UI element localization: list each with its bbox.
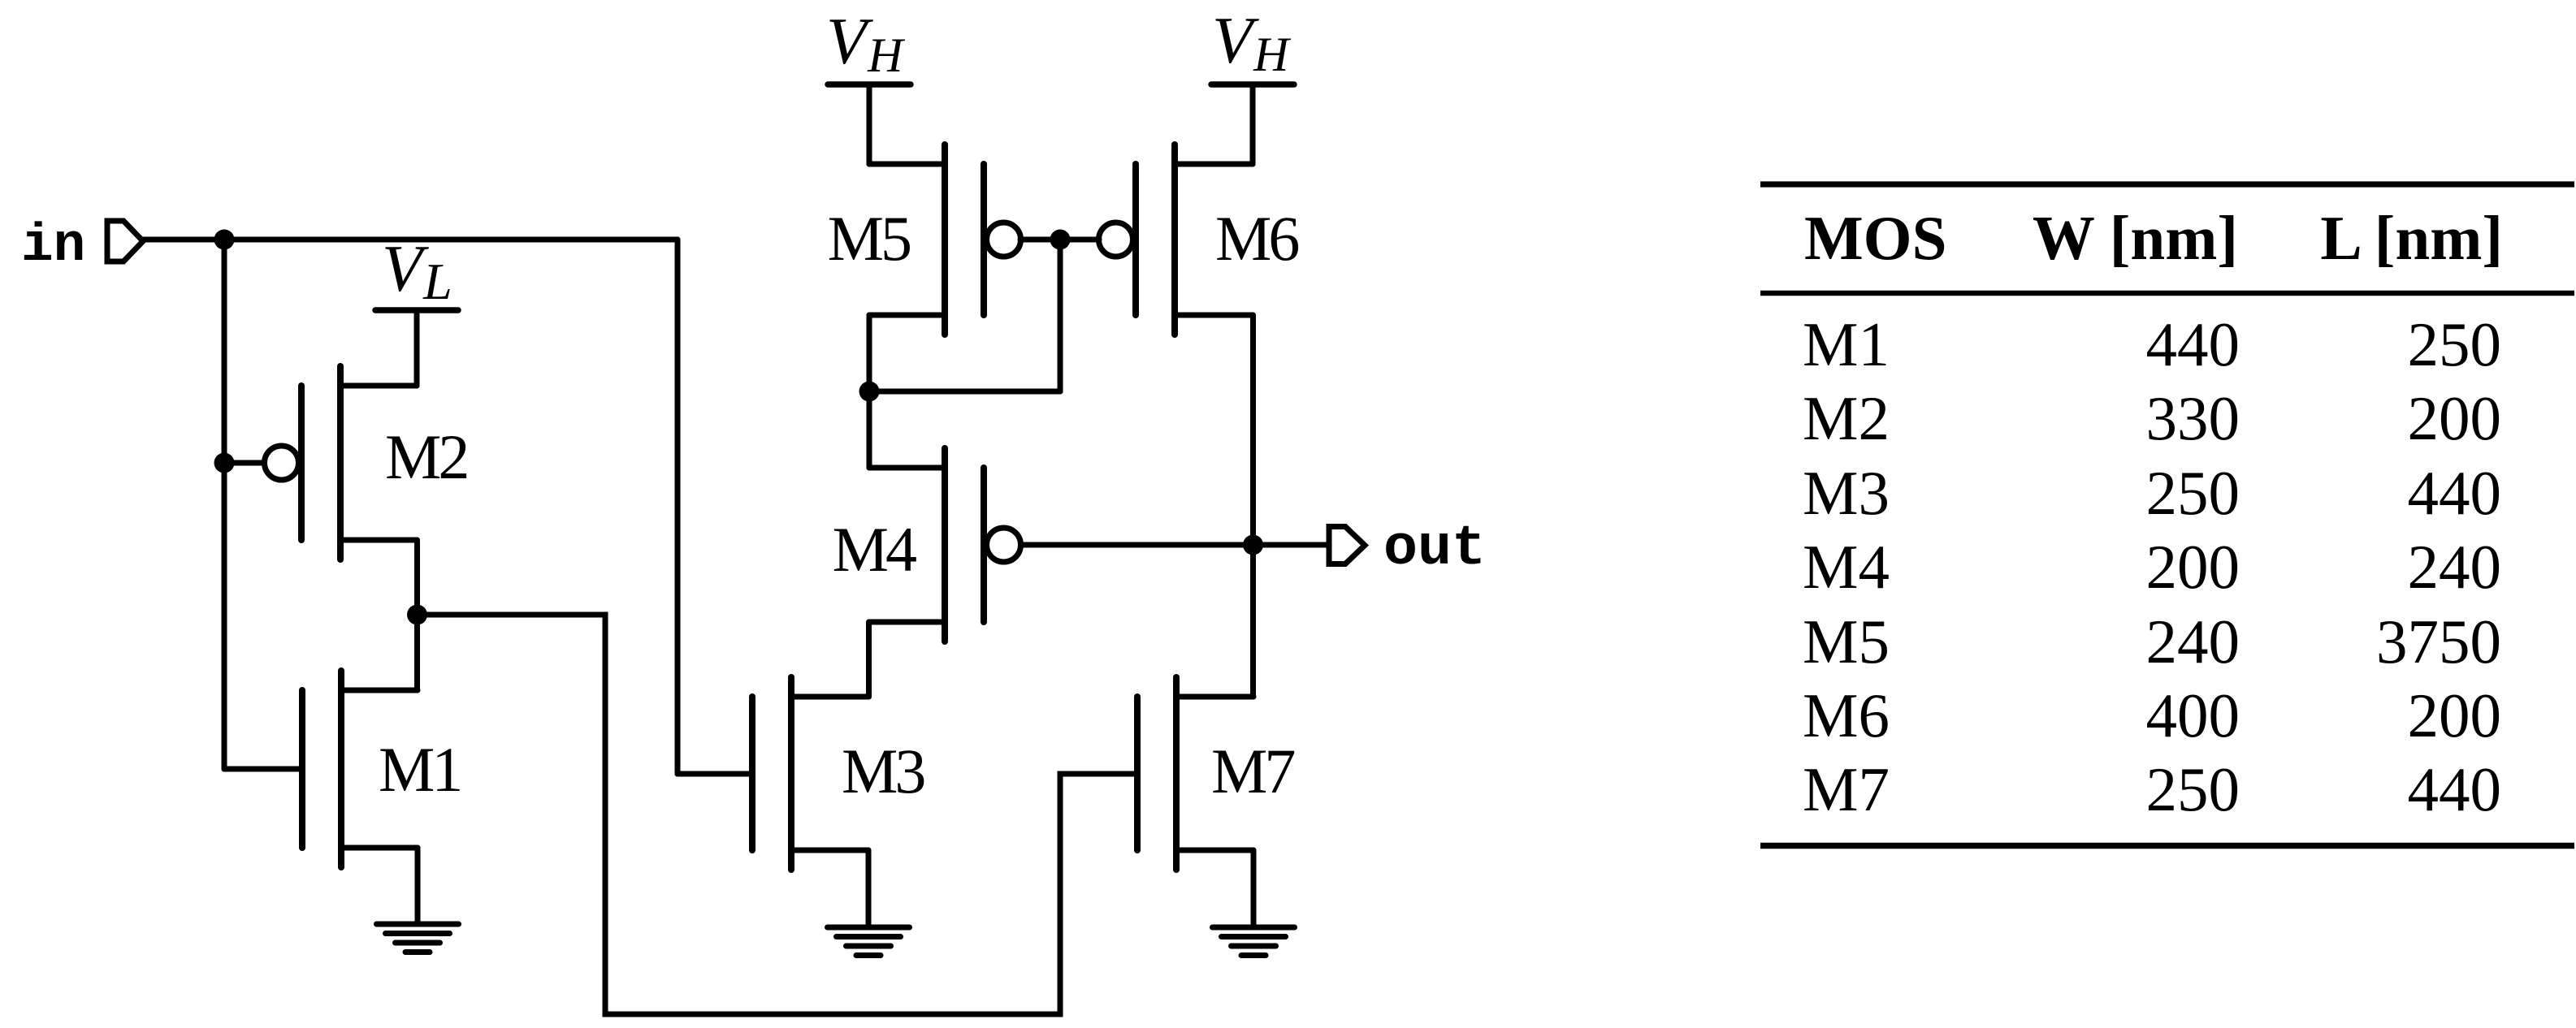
wire M5 drain to M4 source: [867, 315, 872, 468]
wire VH lead (M6): [1250, 84, 1256, 164]
svg-text:L [nm]: L [nm]: [2320, 203, 2503, 273]
transistor M5: [869, 145, 1021, 335]
svg-text:440: 440: [2408, 458, 2502, 528]
wire M1 source to ground: [415, 848, 421, 924]
table top rule: [1760, 181, 2574, 187]
wire M2 drain to M1 drain: [414, 540, 420, 690]
svg-text:200: 200: [2146, 532, 2240, 602]
svg-text:M7: M7: [1803, 754, 1890, 824]
transistor M4: [869, 448, 1021, 641]
svg-text:400: 400: [2146, 680, 2240, 750]
svg-text:M5: M5: [1803, 607, 1890, 676]
svg-text:M4: M4: [833, 514, 916, 585]
input port "in": [107, 221, 143, 261]
wire M3 source to ground: [866, 850, 872, 927]
wire in node: down to M3 gate row: [675, 240, 681, 774]
wire M7 source to ground: [1251, 850, 1257, 927]
svg-text:3750: 3750: [2376, 607, 2501, 676]
svg-text:M6: M6: [1803, 680, 1890, 750]
wire in node: to M2 gate bubble: [224, 460, 267, 466]
svg-text:M1: M1: [379, 734, 460, 805]
transistor M2: [265, 366, 418, 559]
node out dot: [1243, 535, 1263, 555]
svg-text:240: 240: [2146, 607, 2240, 676]
transistor M3: [752, 677, 868, 870]
svg-text:M7: M7: [1211, 736, 1294, 806]
ground (M1): [377, 924, 459, 952]
wire M4 gate to out node: [1023, 542, 1253, 548]
node gate-tie dot: [1050, 230, 1071, 250]
ground (M3): [828, 927, 910, 956]
svg-text:M5: M5: [828, 203, 910, 274]
node in junction dot at M2 gate: [214, 453, 235, 473]
svg-text:out: out: [1383, 517, 1486, 581]
svg-text:250: 250: [2408, 309, 2502, 379]
wire gate-tie down to M5 drain node: [1058, 240, 1063, 391]
supply VH bar (right): [1211, 81, 1294, 88]
table header rule: [1760, 291, 2574, 296]
supply VH bar (left): [828, 81, 911, 88]
transistor M1: [302, 671, 418, 867]
transistor M7: [1137, 677, 1253, 870]
svg-text:200: 200: [2408, 383, 2502, 453]
node A dot (M1/M2 drains): [407, 605, 427, 625]
wire M5 drain node horizontal: [869, 389, 1060, 395]
svg-text:M4: M4: [1803, 532, 1890, 602]
svg-text:200: 200: [2408, 680, 2502, 750]
svg-text:M6: M6: [1215, 203, 1298, 274]
output port "out": [1329, 527, 1365, 564]
svg-text:W [nm]: W [nm]: [2033, 203, 2238, 273]
supply VL bar: [375, 307, 458, 313]
wire M5 gate to M6 gate: [1020, 237, 1099, 243]
svg-text:MOS: MOS: [1804, 203, 1946, 273]
svg-text:250: 250: [2146, 458, 2240, 528]
svg-text:330: 330: [2146, 383, 2240, 453]
svg-text:250: 250: [2146, 754, 2240, 824]
node in junction dot at top: [214, 230, 235, 250]
wire VH lead (M5): [867, 84, 872, 164]
table header row: [1804, 203, 2503, 273]
table bottom rule: [1760, 843, 2574, 849]
svg-text:in: in: [21, 215, 85, 276]
svg-text:M3: M3: [1803, 458, 1890, 528]
svg-text:440: 440: [2146, 309, 2240, 379]
svg-text:M2: M2: [385, 421, 466, 492]
svg-text:M3: M3: [842, 736, 924, 806]
ground (M7): [1213, 927, 1295, 956]
wire in node: left vertical to M1 gate row: [222, 240, 227, 769]
wire M4 drain to M3 drain: [866, 622, 872, 697]
svg-text:440: 440: [2408, 754, 2502, 824]
wire out node to port: [1253, 542, 1329, 548]
wire in node: port to corner: [143, 237, 678, 243]
svg-text:M1: M1: [1803, 309, 1890, 379]
wire in node: to M1 gate: [224, 767, 302, 772]
svg-text:M2: M2: [1803, 383, 1890, 453]
wire M6 drain to M7 drain (through out node): [1250, 315, 1256, 697]
wire node A to M7 gate: right, down, right, up: [418, 615, 1138, 1014]
node M5 drain dot: [859, 382, 880, 402]
wire VL lead: [414, 310, 420, 386]
svg-text:240: 240: [2408, 532, 2502, 602]
wire in node: to M3 gate: [678, 771, 752, 777]
transistor M6: [1099, 145, 1253, 335]
